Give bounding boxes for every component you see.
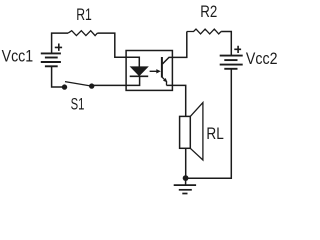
transistor emitter arrowhead [163, 78, 167, 82]
ground bar 3 [182, 193, 187, 195]
switch S1 right contact dot [89, 83, 94, 88]
battery Vcc2 plate long bottom [220, 64, 243, 66]
battery Vcc2 plate short bottom [224, 68, 237, 70]
LED cathode bar [130, 75, 149, 77]
svg-text:S1: S1 [71, 96, 85, 114]
wire speaker to ground node [185, 148, 187, 178]
ground bar 1 [174, 184, 196, 186]
battery Vcc1 plate long bottom [41, 61, 61, 63]
wire Vcc1 bottom lead to switch [52, 66, 62, 87]
light arrow shaft [150, 70, 157, 72]
optocoupler U1 box [126, 51, 172, 91]
battery Vcc2 plus sign [234, 46, 241, 53]
wire switch to LED cathode [93, 76, 140, 85]
wire emitter to speaker [167, 85, 186, 116]
svg-text:R1: R1 [76, 6, 92, 24]
switch S1 left contact dot [62, 84, 67, 89]
wire Vcc1 top lead to R1 [52, 33, 69, 53]
wire R2 to Vcc2 [221, 32, 231, 56]
speaker RL cone [190, 103, 203, 160]
transistor emitter diagonal [162, 77, 167, 86]
light arrow head [156, 69, 161, 73]
battery Vcc1 plate short bottom [45, 65, 58, 67]
LED D1 triangle [130, 66, 149, 76]
svg-text:RL: RL [206, 125, 223, 143]
svg-text:Vcc1: Vcc1 [2, 47, 34, 65]
wire Vcc2 bottom lead down to ground rail [186, 69, 232, 178]
wire R1 to optocoupler anode [97, 33, 139, 66]
battery Vcc2 plate long top [220, 55, 243, 57]
transistor Q1 base bar [161, 57, 163, 78]
transistor collector wire to R2 [162, 32, 186, 65]
switch S1 blade [65, 82, 91, 86]
svg-text:Vcc2: Vcc2 [246, 50, 278, 68]
ground stub [185, 178, 187, 185]
svg-text:R2: R2 [200, 3, 217, 21]
battery Vcc2 plate short [224, 59, 237, 61]
battery Vcc1 plate long top [41, 52, 61, 54]
ground bar 2 [179, 189, 192, 191]
speaker RL frame [180, 116, 191, 148]
battery Vcc1 plate short [45, 57, 58, 59]
resistor R1 [68, 31, 97, 36]
battery Vcc1 plus sign [55, 44, 62, 51]
ground junction node [183, 175, 189, 181]
resistor R2 [187, 29, 221, 34]
